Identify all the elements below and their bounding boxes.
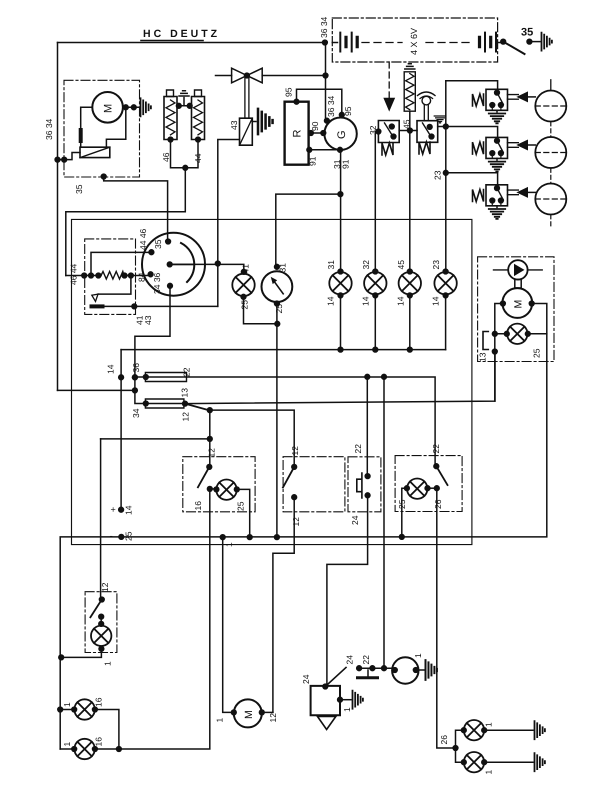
terminal 35 [166, 239, 171, 244]
battery cells right group [480, 37, 491, 46]
resistor zigzag [101, 272, 124, 280]
starter dash-dot box [64, 80, 140, 177]
lamp 45 [399, 272, 421, 294]
wire 43 to key-switch net [218, 140, 240, 307]
wire 91: R to G bottom [309, 149, 340, 151]
solenoid 43 [240, 118, 253, 145]
label 36 34 (left border) [44, 118, 54, 140]
wire 90: R to G [309, 132, 325, 134]
node 35 [527, 39, 532, 44]
wire valve left stub [216, 75, 232, 77]
wiper park switch [483, 332, 488, 350]
svg-text:91: 91 [341, 159, 351, 169]
svg-text:14: 14 [124, 505, 134, 515]
node plug 44 bottom [196, 137, 201, 142]
svg-text:24: 24 [350, 515, 360, 525]
pointer triangle [92, 294, 98, 301]
svg-text:1: 1 [342, 707, 352, 712]
wire 12 to switch B [210, 410, 294, 467]
interior lamp [91, 626, 111, 646]
wire 22: fuse to switch D [187, 377, 436, 466]
wire feed relay 3 [446, 173, 498, 185]
wire 1: bus to motor M left [223, 537, 234, 712]
svg-text:12: 12 [290, 446, 300, 456]
label 35 [153, 239, 163, 249]
svg-text:M: M [243, 710, 255, 719]
switch lever at battery right (to 35) [501, 39, 506, 44]
svg-text:35: 35 [74, 184, 84, 194]
wire interior light feed [100, 439, 102, 600]
svg-text:45: 45 [396, 260, 406, 270]
horn relay box [311, 686, 340, 715]
relay+lamp group 3 [473, 185, 536, 219]
node fuse 13 output [183, 401, 188, 406]
svg-text:M: M [513, 300, 525, 309]
flex lead below thermo switch [419, 142, 430, 154]
wire M right down to relay [106, 107, 125, 147]
ignition key switch body [142, 233, 205, 296]
wire 23 vertical [445, 81, 447, 272]
wire plugs line into resistor [66, 275, 101, 277]
svg-text:25: 25 [274, 304, 284, 314]
label 13 [478, 352, 488, 362]
wire switch B to wiper motor M [273, 497, 294, 712]
coupling [515, 279, 521, 288]
svg-text:36: 36 [131, 363, 141, 373]
glow plug 46 [164, 97, 177, 140]
wire 34/36 link to border [58, 389, 135, 391]
fuse 34-13 [145, 399, 184, 408]
label 36 34 (at G) [326, 95, 336, 117]
thermo switch box [417, 121, 438, 143]
lamp 32 [364, 272, 386, 294]
labels 41 43 [135, 315, 145, 325]
relay+lamp group 1 (lighting relay) [473, 89, 536, 123]
label 84 [137, 272, 147, 282]
svg-text:35: 35 [153, 239, 163, 249]
wire terminal 34 36 down to fuse bus [135, 286, 170, 404]
work lamp 26 b [456, 748, 464, 762]
wire: battery 36/34 to left border, y=42.5 [58, 42, 325, 44]
ground (horn) [426, 660, 437, 680]
ground (top right, 35) [542, 33, 552, 51]
svg-text:22: 22 [361, 655, 371, 665]
node relay output 35 [101, 174, 106, 179]
svg-text:34: 34 [131, 408, 141, 418]
switch lever 12 [185, 404, 209, 411]
label 34 36 [152, 272, 162, 294]
svg-text:M: M [103, 104, 115, 113]
node plug 46 bottom [168, 137, 173, 142]
umbrella handle [418, 92, 436, 96]
small chassis mark on box [434, 116, 445, 123]
wire branch to gauge [276, 194, 341, 267]
svg-text:+: + [111, 505, 116, 515]
valve twin stem [245, 78, 249, 118]
svg-text:14: 14 [326, 296, 336, 306]
wire 26 down to work lamps [437, 488, 456, 748]
wire resistor to terminal 84 [125, 274, 151, 275]
lamp bus 14 [341, 294, 446, 349]
svg-text:91: 91 [308, 156, 318, 166]
wire switch A output 16 down [209, 489, 211, 748]
wire 13 line to wiper unit [185, 352, 495, 403]
node left terminal 32 [376, 129, 381, 134]
switch box C (horn button) [348, 457, 381, 512]
svg-text:84: 84 [137, 272, 147, 282]
wire feed relay 1 [446, 81, 498, 90]
node: border junction to starter relay [55, 157, 60, 162]
label 45 [402, 119, 412, 129]
svg-text:43: 43 [143, 315, 153, 325]
chassis symbol above 45 [405, 64, 415, 69]
svg-text:24: 24 [345, 655, 355, 665]
node battery left terminal [323, 40, 328, 45]
flex lead below 32 [382, 143, 393, 155]
battery cells left group [332, 42, 337, 44]
svg-text:95: 95 [343, 106, 353, 116]
horn relay ground [338, 697, 343, 702]
svg-text:32: 32 [361, 260, 371, 270]
svg-text:25: 25 [532, 348, 542, 358]
gauge 31 [262, 271, 293, 302]
wire resistor right down to pointer [98, 276, 131, 295]
svg-text:25: 25 [236, 501, 246, 511]
wire thermo left to node 45 [410, 130, 417, 132]
svg-text:35: 35 [521, 27, 533, 39]
label 35 (bold) [521, 27, 533, 39]
svg-text:14: 14 [395, 296, 405, 306]
wire lamp A right to minus bus [237, 489, 250, 537]
horn speaker triangle [318, 717, 336, 730]
fuse 36-22 [135, 373, 187, 382]
svg-text:25: 25 [240, 300, 250, 310]
center terminal [167, 262, 172, 267]
wire 32 to lamp 32 [375, 132, 378, 273]
label 95 (left) [284, 87, 294, 97]
wiper left wiring [495, 304, 507, 353]
chassis symbol above plugs [179, 91, 189, 96]
work lamp 26 a [456, 730, 464, 748]
svg-text:13: 13 [180, 388, 190, 398]
svg-text:41: 41 [241, 264, 251, 274]
svg-text:23: 23 [431, 260, 441, 270]
svg-text:16: 16 [193, 501, 203, 511]
node gauge return on minus bus [275, 535, 280, 540]
battery internal dashed link [362, 42, 474, 44]
svg-text:1: 1 [215, 718, 225, 723]
wire connector to relay [80, 141, 82, 147]
svg-text:R: R [292, 130, 304, 138]
wire M right to ground [123, 106, 139, 108]
svg-text:14: 14 [431, 296, 441, 306]
svg-text:36 34: 36 34 [319, 16, 329, 38]
svg-text:31: 31 [326, 260, 336, 270]
wire: left border vertical x=57.5 (net 36/34) down to y=390.4 [57, 43, 59, 391]
svg-text:22: 22 [353, 444, 363, 454]
wire gauge down to minus bus [276, 302, 278, 537]
label 23 [433, 170, 443, 180]
svg-text:31: 31 [278, 263, 288, 273]
svg-text:12: 12 [181, 412, 191, 422]
wire 45 down to lamp 45 [409, 111, 411, 272]
wire to ground [529, 41, 540, 43]
switch box D (plough lamp switch) [395, 456, 462, 512]
wire 16 return to switch A [95, 748, 210, 750]
wire thermo right to node 23 wire [438, 126, 446, 128]
wire relay to key switch terminal 35 [104, 177, 168, 242]
label 14 [106, 364, 116, 374]
wire 22 feed from fuse [383, 377, 385, 668]
svg-text:1: 1 [484, 770, 494, 775]
svg-text:12: 12 [207, 448, 217, 458]
label 90 [310, 121, 320, 131]
svg-text:22: 22 [182, 367, 192, 377]
battery 4X6V dash-dot box [332, 18, 497, 62]
wire 14 feeder down to + terminal [120, 350, 122, 510]
headlamp 2 [535, 137, 566, 168]
wire lamp to ground bus 1 [60, 649, 101, 658]
wire G output down to lamp 31 [340, 150, 342, 272]
twin stem [424, 105, 428, 121]
headlamp 3 [535, 184, 566, 215]
label 95 (right) [343, 106, 353, 116]
wire: border to starter relay coil [58, 153, 81, 160]
glow plug 44 [192, 97, 205, 140]
wiper right wiring [528, 304, 547, 334]
wire 95: R top to G top [297, 89, 342, 115]
horn [392, 657, 418, 683]
switch box A (lighting switch) [183, 457, 255, 512]
lamp 23 [434, 272, 456, 294]
relay+lamp group 2 [473, 137, 536, 171]
svg-text:12: 12 [291, 517, 301, 527]
contact 24 [357, 666, 362, 671]
svg-text:16: 16 [94, 697, 104, 707]
wire battery left terminal down to generator [325, 43, 327, 121]
svg-text:26: 26 [439, 735, 449, 745]
svg-text:HC DEUTZ: HC DEUTZ [143, 28, 220, 40]
starter motor M [92, 92, 123, 123]
svg-text:34 36: 34 36 [152, 272, 162, 294]
svg-text:-: - [110, 531, 113, 542]
wire M left to connector [81, 107, 93, 130]
center contact line [170, 263, 194, 265]
svg-text:14: 14 [106, 364, 116, 374]
wire plugs join and run to left border [171, 140, 199, 168]
svg-text:1: 1 [62, 702, 72, 707]
wire lamp41 to gauge [244, 297, 278, 324]
wiper lamp [507, 324, 527, 344]
label 43 [229, 120, 239, 130]
label 25 [532, 348, 542, 358]
tail lamp 16 b [74, 739, 94, 759]
generator G [324, 118, 356, 150]
switch box B (wiper switch) [283, 457, 345, 512]
starter relay K [80, 147, 110, 157]
svg-text:90: 90 [310, 121, 320, 131]
node battery wire at G [325, 118, 330, 123]
condenser [359, 667, 384, 669]
svg-text:25: 25 [124, 531, 134, 541]
svg-text:44: 44 [193, 153, 203, 163]
svg-text:13: 13 [478, 352, 488, 362]
svg-text:12: 12 [100, 582, 110, 592]
svg-text:22: 22 [431, 444, 441, 454]
svg-text:43: 43 [229, 120, 239, 130]
headlamp 1 [535, 91, 566, 122]
wire 32 right terminal [399, 130, 410, 132]
wire valve right to battery wire [262, 75, 325, 77]
key arc [181, 243, 194, 282]
terminal bar [92, 304, 103, 308]
terminal 84 [148, 272, 153, 277]
svg-text:4 X 6V: 4 X 6V [409, 28, 419, 55]
lamp 31 [329, 272, 351, 294]
riser to terminal 44 46 [91, 252, 151, 275]
terminal 44 46 [149, 250, 154, 255]
svg-text:1: 1 [224, 542, 234, 547]
label 91 [308, 156, 318, 166]
wire bar to key center net [103, 305, 218, 307]
svg-text:46: 46 [161, 152, 171, 162]
dash-dot box [85, 239, 136, 315]
tail lamp 16 a [74, 699, 94, 719]
wire linking plug tops [177, 98, 192, 106]
svg-text:G: G [336, 130, 348, 139]
wiper motor M [502, 288, 532, 318]
connector bar [79, 130, 83, 141]
wire wiper 13 down [494, 352, 496, 402]
ground (starter motor) [141, 98, 151, 116]
label 44 46 [138, 228, 148, 250]
svg-text:1: 1 [62, 742, 72, 747]
switch box 32 [378, 121, 399, 143]
svg-text:14: 14 [360, 296, 370, 306]
svg-text:46 44: 46 44 [69, 263, 79, 285]
label 35 [74, 184, 84, 194]
svg-text:24: 24 [301, 674, 311, 684]
svg-text:36 34: 36 34 [326, 95, 336, 117]
svg-text:12: 12 [268, 713, 278, 723]
label 46 44 [69, 263, 79, 285]
wire 12 down to switch A and interior light [101, 410, 210, 467]
regulator R [285, 102, 309, 165]
label 46 [161, 152, 171, 162]
svg-text:95: 95 [284, 87, 294, 97]
panel lamp D [407, 479, 427, 499]
svg-text:44 46: 44 46 [138, 228, 148, 250]
label 4 X 6V [409, 28, 419, 55]
labels 31 91 below G [332, 159, 342, 169]
lamp 41 (charge) [232, 274, 254, 296]
wire lamp D to minus bus [402, 488, 407, 537]
dashed actuator stem [388, 62, 390, 98]
svg-text:26: 26 [433, 499, 443, 509]
svg-text:1: 1 [484, 722, 494, 727]
title HC DEUTZ [143, 28, 220, 40]
wire key center branch [170, 264, 244, 271]
svg-text:16: 16 [94, 737, 104, 747]
actuator arrow (key) [384, 98, 394, 110]
svg-text:36 34: 36 34 [44, 118, 54, 140]
terminal +14 [119, 507, 124, 512]
terminal 34 36 [168, 283, 173, 288]
svg-text:23: 23 [433, 170, 443, 180]
label 32 [368, 125, 378, 135]
label 36 34 (battery left) [319, 16, 329, 38]
svg-text:1: 1 [413, 653, 423, 658]
wire button to horn relay [327, 495, 368, 686]
panel lamp A [216, 480, 236, 500]
relay lever [323, 684, 328, 689]
label 44 [193, 153, 203, 163]
push button actuator [357, 473, 362, 498]
svg-text:1: 1 [103, 661, 113, 666]
valve bowtie [232, 68, 263, 83]
washer pump [508, 260, 527, 279]
wire feed relay 2 [446, 127, 498, 138]
ground (solenoid 43) [252, 121, 256, 123]
